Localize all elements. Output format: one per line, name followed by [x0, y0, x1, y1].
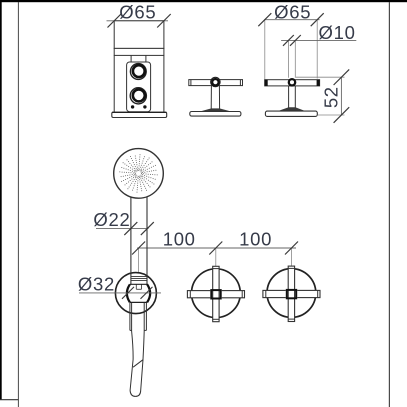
svg-text:100: 100 [163, 228, 196, 249]
svg-text:Ø32: Ø32 [78, 274, 115, 295]
svg-text:Ø22: Ø22 [93, 209, 130, 230]
svg-text:52: 52 [320, 86, 341, 108]
svg-text:Ø10: Ø10 [319, 22, 356, 43]
svg-text:Ø65: Ø65 [119, 2, 156, 23]
svg-text:Ø65: Ø65 [274, 2, 311, 23]
svg-text:100: 100 [239, 228, 272, 249]
